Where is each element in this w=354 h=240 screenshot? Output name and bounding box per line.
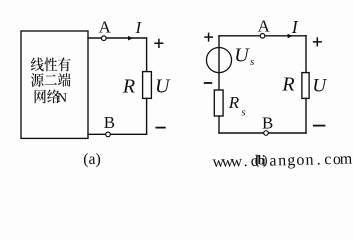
wire source to Rs <box>218 73 220 90</box>
svg-text:B: B <box>262 113 273 132</box>
svg-text:U: U <box>155 75 171 97</box>
current arrow (a) <box>128 36 133 41</box>
right branch upper wire (a) <box>146 38 148 72</box>
minus sign right (b) <box>313 125 326 127</box>
resistor R (b) body <box>302 73 309 99</box>
terminal B (b) <box>264 131 269 136</box>
left branch wire above source (b) <box>218 36 220 49</box>
right branch upper wire (b) <box>305 36 307 73</box>
svg-text:s: s <box>250 56 254 68</box>
minus sign (a) <box>156 127 166 129</box>
bottom wire (b) <box>219 132 306 134</box>
wire A top (a) <box>88 37 146 39</box>
svg-text:B: B <box>104 113 115 132</box>
resistor Rs body <box>214 90 223 116</box>
wire Rs to bottom corner <box>218 116 220 133</box>
plus sign right (b) <box>313 37 322 46</box>
svg-text:I: I <box>291 17 299 37</box>
terminal B (a) <box>106 132 111 137</box>
top wire (b) <box>219 35 306 37</box>
voltage source internal line <box>218 48 220 73</box>
right branch lower wire (b) <box>305 98 307 133</box>
resistor R (a) body <box>143 72 152 99</box>
svg-text:A: A <box>99 17 112 36</box>
network box N <box>21 31 88 138</box>
current arrow (b) <box>288 34 293 38</box>
svg-text:(a): (a) <box>83 151 101 168</box>
svg-text:s: s <box>241 106 245 118</box>
voltage source Us circle <box>206 48 231 73</box>
svg-text:R: R <box>122 75 135 97</box>
svg-text:N: N <box>57 91 67 106</box>
svg-text:U: U <box>312 76 327 97</box>
plus sign left (b) <box>204 33 213 42</box>
svg-text:R: R <box>281 74 294 96</box>
terminal A (b) <box>260 34 265 39</box>
right branch lower wire (a) <box>146 98 148 134</box>
svg-text:A: A <box>258 16 271 35</box>
svg-text:R: R <box>228 93 240 112</box>
bottom wire (a) <box>88 133 147 135</box>
box label: 线性有 源二端 网络N <box>31 57 71 106</box>
svg-text:U: U <box>234 45 250 67</box>
minus sign left (b) <box>204 82 212 84</box>
terminal A (a) <box>101 36 106 41</box>
plus sign (a) <box>154 39 163 48</box>
